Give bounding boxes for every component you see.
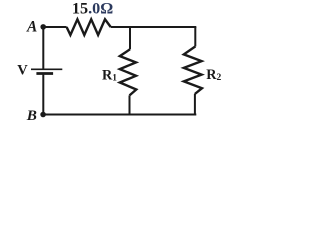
wire left lower (battery to node B) bbox=[42, 75, 44, 115]
wire middle branch lower (R1 down to bottom wire) bbox=[129, 95, 131, 114]
svg-text:A: A bbox=[26, 18, 37, 35]
svg-text:B: B bbox=[26, 107, 37, 124]
wire left upper (A to battery) bbox=[42, 27, 44, 69]
battery V negative plate bbox=[36, 72, 53, 75]
resistor R2 zigzag bbox=[184, 46, 202, 94]
svg-text:R2: R2 bbox=[206, 67, 221, 83]
wire middle branch upper (top wire down to R1) bbox=[129, 27, 131, 49]
resistor 15.0 ohm zigzag bbox=[67, 19, 111, 35]
svg-text:R1: R1 bbox=[102, 68, 117, 84]
node A bbox=[40, 24, 46, 30]
battery V positive plate bbox=[31, 68, 62, 70]
wire bottom from node B to bottom-right corner bbox=[43, 113, 196, 115]
svg-text:15.0Ω: 15.0Ω bbox=[72, 0, 113, 18]
svg-text:V: V bbox=[17, 63, 28, 79]
wire right branch upper (top-right corner down to R2) bbox=[194, 27, 196, 47]
node B bbox=[40, 112, 46, 118]
wire top from resistor to top-right corner bbox=[111, 26, 197, 28]
wire top from node A to resistor bbox=[43, 26, 67, 28]
wire right branch lower (R2 down to bottom-right corner) bbox=[194, 94, 196, 115]
resistor R1 zigzag bbox=[120, 49, 137, 95]
